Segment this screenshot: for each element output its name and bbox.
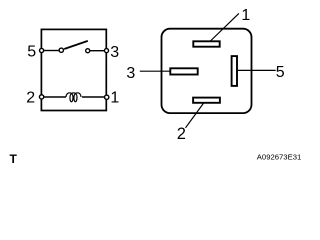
svg-text:T: T [10, 152, 18, 166]
svg-text:1: 1 [241, 7, 250, 24]
svg-text:1: 1 [110, 90, 119, 107]
svg-text:3: 3 [110, 44, 119, 61]
svg-text:5: 5 [276, 64, 285, 81]
svg-text:3: 3 [126, 65, 135, 82]
svg-text:2: 2 [26, 89, 35, 106]
svg-text:2: 2 [177, 125, 186, 143]
svg-text:A092673E31: A092673E31 [257, 152, 301, 161]
svg-text:5: 5 [27, 44, 36, 61]
